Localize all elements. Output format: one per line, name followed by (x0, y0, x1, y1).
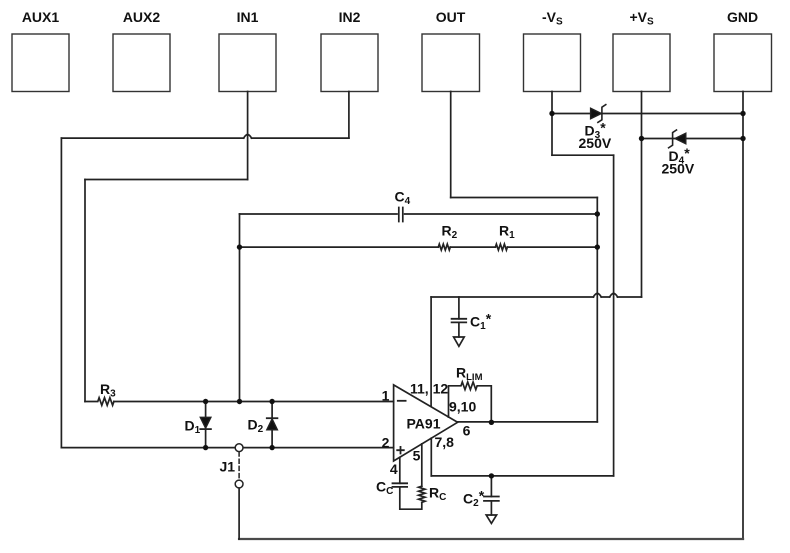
terminal AUX1 (12, 34, 69, 92)
diode D1 (200, 402, 211, 448)
svg-text:RLIM: RLIM (456, 365, 483, 384)
resistor Rc (419, 486, 425, 502)
svg-text:GND: GND (727, 9, 758, 25)
svg-text:D4*250V: D4*250V (662, 145, 695, 177)
wire pin 2 line (non-inverting input net) (61, 447, 393, 449)
wire -Vs vertical drop (551, 92, 553, 156)
svg-text:+VS: +VS (630, 9, 655, 28)
svg-text:7,8: 7,8 (435, 434, 455, 450)
terminal OUT (422, 34, 480, 92)
svg-text:D2: D2 (248, 417, 264, 436)
svg-text:-VS: -VS (542, 9, 563, 28)
svg-text:CC: CC (376, 479, 393, 498)
junction dot GND / D3 (740, 111, 745, 116)
wire IN2 left rail down to pin2 line (60, 138, 62, 448)
junction dot output node (489, 420, 494, 425)
op-amp minus input sign (398, 400, 406, 402)
wire IN1 left rail down to R3 (84, 180, 86, 402)
terminal GND (714, 34, 772, 92)
jumper J1 bottom circle (235, 480, 243, 488)
resistor R1 (495, 244, 507, 250)
wire +Vs horizontal with hops (431, 296, 641, 298)
wire hop +Vs over feedback column (593, 293, 601, 297)
wire Cc bottom U link (400, 487, 422, 509)
resistor R3 (85, 398, 114, 406)
wire pin 5 stub (421, 444, 423, 486)
capacitor Cc (393, 483, 408, 487)
wire IN2 vertical drop (348, 92, 350, 139)
svg-text:C1*: C1* (470, 311, 492, 333)
wire IN1 horizontal to left rail (85, 179, 248, 181)
wire IN1 vertical drop (247, 92, 249, 180)
svg-text:R2: R2 (442, 223, 458, 242)
jumper J1 dashed link (238, 452, 240, 480)
junction dot +Vs / D4 (639, 136, 644, 141)
wire pin 4 stub (399, 457, 401, 483)
diode D2 (267, 402, 278, 448)
ground symbol below C2 (486, 515, 496, 523)
wire OUT horizontal to feedback column (451, 197, 598, 199)
diode D3 line (552, 113, 743, 115)
junction dot C4 right (595, 211, 600, 216)
wire hop IN2 over IN1 (244, 135, 252, 139)
wire +Vs vertical drop (641, 92, 643, 298)
junction dot R2 left (237, 244, 242, 249)
wire J1 lower stub to rail (238, 488, 240, 539)
capacitor C2 (484, 476, 499, 515)
wire hop +Vs over -Vs column (610, 293, 618, 297)
svg-text:AUX1: AUX1 (22, 9, 60, 25)
svg-text:11, 12: 11, 12 (410, 381, 448, 397)
wire pin 11,12 stub (430, 297, 432, 406)
svg-text:1: 1 (382, 388, 390, 404)
resistor R2 (438, 244, 450, 250)
svg-text:AUX2: AUX2 (123, 9, 161, 25)
junction dot inverting node (237, 399, 242, 404)
wire inverting node vertical (239, 214, 241, 402)
op-amp plus input sign (397, 447, 404, 454)
junction dot GND / D4 (740, 136, 745, 141)
diode D4 zener (669, 130, 686, 148)
svg-text:6: 6 (463, 423, 471, 439)
svg-text:D1: D1 (185, 418, 201, 437)
svg-text:C4: C4 (395, 189, 411, 208)
svg-text:IN1: IN1 (237, 9, 259, 25)
svg-text:R1: R1 (499, 223, 515, 242)
svg-text:C2*: C2* (463, 488, 485, 510)
resistor RLIM (449, 382, 492, 422)
junction dot C2 top (489, 473, 494, 478)
svg-text:J1: J1 (220, 459, 236, 475)
wire pin 1 line (inverting input net) (114, 401, 394, 403)
wire GND vertical (742, 92, 744, 540)
wire output horizontal to feedback column (458, 421, 598, 423)
terminal IN1 (219, 34, 276, 92)
svg-text:RC: RC (429, 485, 446, 504)
svg-text:OUT: OUT (436, 9, 466, 25)
junction dot R1 right (595, 244, 600, 249)
jumper J1 top circle (235, 444, 243, 452)
svg-text:4: 4 (390, 461, 398, 477)
wire bottom ground rail (239, 538, 743, 540)
junction dot D2 bottom (269, 445, 274, 450)
wire pins 7,8 line to -Vs (431, 475, 613, 477)
capacitor C4 (399, 208, 403, 222)
wire IN2 horizontal with hop over IN1 (61, 137, 349, 139)
wire C4 line right segment (405, 213, 598, 215)
terminal IN2 (321, 34, 378, 92)
wire pin 7,8 stub (430, 438, 432, 476)
terminal AUX2 (113, 34, 170, 92)
capacitor C1 (452, 297, 467, 337)
svg-text:9,10: 9,10 (449, 399, 476, 415)
terminal +Vs (613, 34, 670, 92)
op-amp U1 PA91 triangle (394, 385, 458, 461)
diode D4 line (642, 138, 744, 140)
wire C4 line left segment (240, 213, 398, 215)
svg-text:R3: R3 (100, 381, 116, 400)
wire OUT vertical drop (450, 92, 452, 198)
wire feedback column vertical (596, 198, 598, 422)
wire R2 R1 feedback line (240, 246, 598, 248)
diode D3 zener (591, 105, 606, 123)
svg-text:5: 5 (413, 448, 421, 464)
svg-text:2: 2 (382, 435, 390, 451)
wire -Vs horizontal jog (552, 154, 614, 156)
wire -Vs column vertical (613, 155, 615, 476)
junction dot D1 bottom (203, 445, 208, 450)
svg-text:IN2: IN2 (339, 9, 361, 25)
ground symbol below C1 (454, 337, 465, 346)
junction dot D1 top (203, 399, 208, 404)
terminal -Vs (524, 34, 581, 92)
svg-text:D3*250V: D3*250V (579, 120, 612, 152)
junction dot D2 top (269, 399, 274, 404)
junction dot -Vs / D3 (549, 111, 554, 116)
svg-text:PA91: PA91 (407, 416, 441, 432)
